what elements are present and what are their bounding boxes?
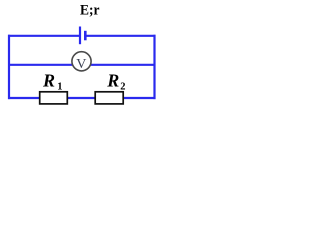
svg-text:V: V bbox=[76, 57, 86, 72]
battery E,r: long plate bbox=[79, 27, 81, 45]
wire: middle branch (voltmeter branch) bbox=[8, 64, 156, 66]
svg-text:2: 2 bbox=[120, 82, 125, 93]
wire: right vertical branch bbox=[153, 35, 155, 99]
resistor R1 box bbox=[40, 92, 68, 104]
svg-text:R: R bbox=[106, 71, 119, 91]
svg-text:R: R bbox=[42, 71, 55, 91]
wire: top left segment to battery bbox=[8, 35, 80, 37]
battery E,r: short plate bbox=[84, 31, 87, 41]
wire: left vertical branch bbox=[8, 35, 10, 99]
voltmeter U1 circle bbox=[72, 52, 91, 71]
svg-text:E;r: E;r bbox=[80, 3, 100, 19]
resistor R2 box bbox=[95, 92, 123, 104]
wire: bottom branch bbox=[8, 97, 156, 99]
svg-text:1: 1 bbox=[57, 82, 62, 93]
wire: top right segment from battery bbox=[85, 35, 155, 37]
